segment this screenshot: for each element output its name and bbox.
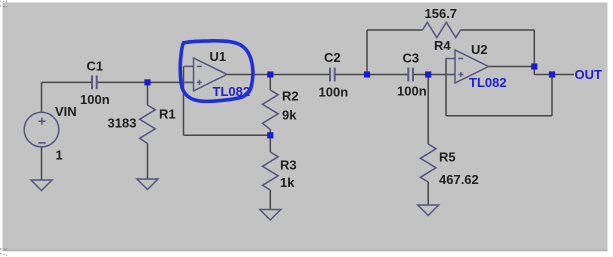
wire R4 left horizontal: [367, 29, 423, 31]
svg-text:1: 1: [56, 148, 63, 163]
wire C1 to node A: [97, 81, 147, 83]
op-amp U2 input stubs: [446, 59, 456, 75]
wire R4 down to U2 output node: [533, 30, 535, 67]
svg-text:3183: 3183: [108, 116, 137, 131]
wire node C to R3: [269, 135, 271, 152]
wire C3 to node E: [413, 74, 428, 76]
svg-text:156.7: 156.7: [425, 6, 458, 21]
wire VIN bottom to ground: [41, 147, 43, 180]
node OUT junction: [549, 71, 555, 77]
wire C2 to node D: [335, 74, 408, 76]
wire U1 feedback bottom horizontal: [184, 134, 271, 136]
capacitor C3 plates: [408, 68, 413, 82]
node B junction (U1 out/R2/C2): [267, 71, 273, 77]
ground under R1: [137, 179, 158, 190]
wire U2 feedback bottom horizontal: [446, 115, 552, 117]
op-amp U2 triangle: [455, 50, 489, 83]
svg-text:R1: R1: [159, 107, 176, 122]
ground under R3: [260, 210, 281, 221]
resistor R5 body: [420, 144, 436, 182]
op-amp U1 triangle: [194, 58, 228, 91]
svg-text:100n: 100n: [319, 85, 349, 100]
wire node D up to R4: [366, 30, 368, 75]
svg-text:100n: 100n: [397, 84, 427, 99]
voltage source VIN circle: [24, 112, 59, 147]
svg-text:R4: R4: [434, 38, 451, 53]
wire U1 output to C2: [227, 74, 330, 76]
svg-text:VIN: VIN: [55, 104, 77, 119]
wire R5 to ground: [427, 182, 429, 205]
wire node A down to R1: [147, 82, 149, 105]
corner artifact top-left: [0, 0, 7, 7]
svg-text:C1: C1: [87, 59, 104, 74]
node A junction (C1/R1/U1+): [144, 79, 150, 85]
ground under VIN: [31, 180, 52, 191]
wire node A to U1 plus input: [148, 81, 194, 83]
resistor R1 body: [140, 105, 156, 144]
capacitor C1 plates: [92, 76, 97, 90]
wire node F down jog: [533, 67, 535, 75]
op-amp U1 minus mark: [197, 65, 202, 67]
wire node E to U2 plus input: [428, 74, 455, 76]
svg-text:U2: U2: [471, 42, 488, 57]
wire to OUT label: [534, 74, 574, 76]
wire R4 right horizontal: [461, 29, 535, 31]
annotation circle around U1: [180, 41, 253, 102]
svg-text:1k: 1k: [280, 175, 295, 190]
svg-text:U1: U1: [210, 49, 227, 64]
svg-text:C3: C3: [403, 51, 420, 66]
op-amp U1 input stubs: [184, 66, 194, 82]
svg-text:R3: R3: [280, 158, 297, 173]
node C junction (R2/R3/feedback): [267, 132, 273, 138]
svg-text:TL082: TL082: [469, 75, 507, 90]
svg-text:467.62: 467.62: [439, 172, 479, 187]
wire U2 feedback vertical to minus: [445, 59, 447, 116]
node E junction (C3/R5/U2+): [425, 71, 431, 77]
wire VIN top to C1: [42, 81, 92, 83]
ground under R5: [418, 205, 439, 216]
svg-text:OUT: OUT: [575, 67, 603, 82]
VIN minus mark: [38, 142, 46, 144]
svg-text:100n: 100n: [80, 92, 110, 107]
wire OUT node down: [551, 75, 553, 116]
op-amp U2 plus mark: [458, 72, 463, 77]
resistor R3 body: [263, 152, 279, 190]
wire U1 minus feedback vertical: [183, 66, 185, 135]
wire R3 to ground: [269, 190, 271, 210]
resistor R2 body: [263, 90, 279, 130]
wire R1 to ground: [147, 144, 149, 180]
resistor R4 body (horizontal): [423, 22, 461, 37]
corner artifact bottom-left: [0, 248, 7, 256]
op-amp U1 plus mark: [197, 80, 202, 85]
wire R2 to node C: [269, 130, 271, 136]
svg-text:9k: 9k: [282, 108, 297, 123]
wire node E down to R5: [427, 75, 429, 145]
wire VIN vertical top: [41, 82, 43, 112]
svg-text:C2: C2: [324, 50, 341, 65]
wire U2 output to node F: [489, 66, 535, 68]
VIN plus mark: [38, 118, 45, 125]
capacitor C2 plates: [330, 68, 335, 82]
wire node B down to R2: [269, 75, 271, 91]
node F junction (U2 out/R4): [531, 63, 537, 69]
node D junction (C2/R4/C3): [364, 71, 370, 77]
svg-text:R2: R2: [282, 89, 299, 104]
op-amp U2 minus mark: [458, 58, 463, 60]
svg-text:R5: R5: [439, 150, 456, 165]
